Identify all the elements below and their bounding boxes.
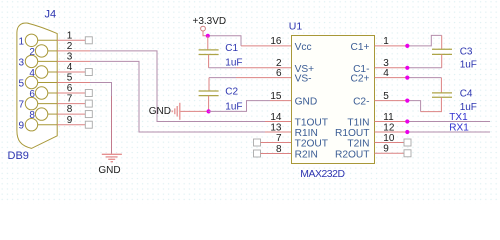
svg-text:8: 8 bbox=[276, 144, 282, 155]
wire U1 pin 12 (R1OUT) RX1 net bbox=[375, 122, 491, 133]
J4 pin 1 circle bbox=[18, 34, 57, 47]
svg-text:J4: J4 bbox=[45, 9, 57, 21]
svg-text:T1OUT: T1OUT bbox=[295, 118, 328, 129]
U1 pin numbers right bbox=[383, 36, 395, 154]
capacitor C4 bbox=[432, 89, 477, 114]
wire C1 bottom to VS+ pin 2 bbox=[209, 55, 292, 68]
no-connect square pin 4 bbox=[85, 69, 92, 76]
wire U1 pin 9 stub bbox=[375, 152, 405, 154]
wire J4 pin 1 bbox=[57, 30, 85, 41]
wire U1 pin 1 (C1+) to C3 top bbox=[375, 35, 442, 49]
svg-text:1: 1 bbox=[67, 30, 73, 41]
wire junction to GND pin 15 bbox=[209, 101, 292, 112]
svg-text:6: 6 bbox=[276, 68, 282, 79]
wire U1 pin 10 stub bbox=[375, 142, 405, 144]
op chip U1 MAX232D body bbox=[289, 20, 375, 180]
svg-text:5: 5 bbox=[18, 79, 24, 90]
svg-text:GND: GND bbox=[98, 165, 120, 176]
svg-text:C2: C2 bbox=[225, 87, 238, 98]
junction pin 11 bbox=[405, 119, 409, 123]
no-connect square pin 6 bbox=[85, 90, 92, 97]
junction pin 5 bbox=[405, 99, 409, 103]
J4 pin 4 circle bbox=[29, 66, 57, 79]
J4 pin 6 circle bbox=[29, 87, 57, 100]
svg-text:1uF: 1uF bbox=[225, 101, 242, 112]
junction at +3.3VD bbox=[206, 34, 210, 38]
svg-text:R2OUT: R2OUT bbox=[335, 150, 370, 161]
svg-text:14: 14 bbox=[270, 112, 282, 123]
svg-text:15: 15 bbox=[270, 91, 282, 102]
wire U1 pin 8 stub bbox=[261, 153, 292, 155]
svg-text:C3: C3 bbox=[460, 46, 473, 57]
svg-text:7: 7 bbox=[276, 133, 282, 144]
wire J4 pin 3 (to R1IN) bbox=[57, 52, 291, 133]
svg-text:C1+: C1+ bbox=[351, 42, 370, 53]
wire VS- pin 6 to C2 top bbox=[209, 78, 292, 91]
capacitor C3 bbox=[432, 46, 477, 70]
no-connect square U1 pin 9 bbox=[404, 150, 411, 157]
svg-text:1: 1 bbox=[18, 36, 24, 47]
svg-text:GND: GND bbox=[149, 106, 171, 117]
svg-text:DB9: DB9 bbox=[8, 150, 29, 162]
svg-text:C4: C4 bbox=[460, 89, 473, 100]
svg-text:R2IN: R2IN bbox=[295, 150, 318, 161]
svg-text:T2OUT: T2OUT bbox=[295, 139, 328, 150]
svg-text:8: 8 bbox=[67, 104, 73, 115]
J4 pin 7 circle bbox=[18, 97, 57, 110]
wire GND port to junction bbox=[181, 110, 209, 112]
svg-text:7: 7 bbox=[18, 100, 24, 111]
wire U1 pin 7 stub bbox=[261, 142, 292, 144]
wire U1 pin 5 (C2-) to C4 bottom bbox=[375, 97, 442, 111]
U1 pin numbers left bbox=[270, 36, 282, 155]
J4 pin 8 circle bbox=[29, 108, 57, 121]
wire J4 pin 7 bbox=[57, 94, 85, 105]
power port GND (left of C2) bbox=[149, 103, 180, 120]
svg-text:C1: C1 bbox=[225, 43, 238, 54]
svg-text:13: 13 bbox=[270, 122, 282, 133]
svg-text:U1: U1 bbox=[289, 20, 303, 32]
no-connect square pin 1 bbox=[85, 37, 92, 44]
svg-text:5: 5 bbox=[67, 73, 73, 84]
wire J4 pin 4 bbox=[57, 62, 85, 73]
wire J4 pin 8 bbox=[57, 104, 85, 115]
J4 pin 3 circle bbox=[18, 55, 57, 68]
junction pin 3 bbox=[405, 66, 409, 70]
svg-text:4: 4 bbox=[67, 62, 73, 73]
power port +3.3VD bbox=[193, 16, 227, 36]
svg-text:T1IN: T1IN bbox=[347, 118, 369, 129]
no-connect square pin 7 bbox=[85, 100, 92, 107]
svg-text:VS-: VS- bbox=[295, 74, 312, 85]
junction pin 1 bbox=[405, 44, 409, 48]
svg-text:1uF: 1uF bbox=[460, 59, 477, 70]
wire C2 bottom to junction bbox=[208, 96, 210, 112]
no-connect square pin 9 bbox=[85, 121, 92, 128]
capacitor C2 bbox=[199, 87, 243, 113]
J4 pin 2 circle bbox=[29, 45, 57, 58]
svg-text:T2IN: T2IN bbox=[347, 139, 369, 150]
wire J4 pin 6 bbox=[57, 83, 85, 94]
wire U1 pin 11 (T1IN) TX1 net bbox=[375, 112, 491, 123]
svg-text:Vcc: Vcc bbox=[295, 42, 312, 53]
no-connect square U1 pin 10 bbox=[404, 139, 411, 146]
wire J4 pin 5 (to ground) bbox=[57, 73, 111, 154]
svg-text:9: 9 bbox=[18, 121, 24, 132]
svg-text:TX1: TX1 bbox=[449, 112, 468, 123]
wire U1 pin 3 (C1-) to C3 bottom bbox=[375, 54, 442, 67]
svg-text:C2+: C2+ bbox=[351, 74, 370, 85]
connector J4 DB9 body bbox=[17, 23, 57, 148]
U1 pin names left column bbox=[295, 42, 328, 161]
wire +3.3VD to Vcc pin 16 bbox=[208, 36, 292, 46]
svg-text:R1OUT: R1OUT bbox=[335, 128, 370, 139]
ground symbol (bottom, for DB9 pin 5) bbox=[98, 154, 122, 176]
wire +3.3VD down to C1 bbox=[207, 36, 209, 50]
svg-text:6: 6 bbox=[67, 83, 73, 94]
junction pin 4 bbox=[405, 76, 409, 80]
U1 pin names right column bbox=[335, 42, 370, 161]
svg-text:RX1: RX1 bbox=[449, 122, 469, 133]
svg-text:R1IN: R1IN bbox=[295, 128, 318, 139]
no-connect square U1 pin 8 bbox=[254, 150, 261, 157]
svg-text:3: 3 bbox=[18, 57, 24, 68]
junction at C2 bottom bbox=[207, 109, 211, 113]
svg-text:1uF: 1uF bbox=[225, 58, 242, 69]
capacitor C1 bbox=[199, 43, 243, 68]
wire J4 pin 9 bbox=[57, 115, 85, 126]
J4 pin 9 circle bbox=[18, 119, 57, 132]
svg-text:C2-: C2- bbox=[353, 97, 369, 108]
svg-text:GND: GND bbox=[295, 97, 318, 108]
svg-text:7: 7 bbox=[67, 94, 73, 105]
svg-text:MAX232D: MAX232D bbox=[300, 169, 344, 180]
svg-text:16: 16 bbox=[270, 36, 282, 47]
no-connect square pin 8 bbox=[85, 111, 92, 118]
wire U1 pin 4 (C2+) to C4 top bbox=[375, 78, 442, 93]
J4 pin 5 circle bbox=[18, 76, 57, 89]
no-connect square U1 pin 7 bbox=[254, 139, 261, 146]
wire J4 pin 2 (to T1OUT) bbox=[57, 41, 291, 122]
svg-text:2: 2 bbox=[67, 41, 73, 52]
svg-text:3: 3 bbox=[67, 52, 73, 63]
svg-text:+3.3VD: +3.3VD bbox=[193, 16, 227, 27]
junction pin 12 bbox=[405, 130, 409, 134]
svg-text:9: 9 bbox=[67, 115, 73, 126]
